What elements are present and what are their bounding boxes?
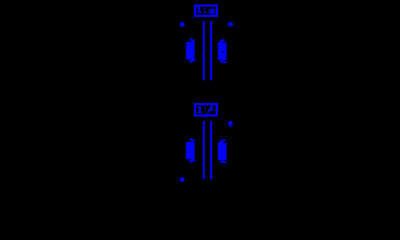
secondary winding T1 xyxy=(218,40,227,62)
phase dot T2 right top xyxy=(228,121,233,126)
primary winding T1 xyxy=(186,40,195,62)
transformer T2 xyxy=(180,104,233,182)
core line T2 left xyxy=(203,121,205,179)
label glyph ":" of 1:a xyxy=(204,8,206,13)
phase dot T2 left bottom xyxy=(180,177,185,182)
phase dot T1 left xyxy=(180,22,185,27)
ratio label box 2 xyxy=(195,104,217,115)
secondary winding T2 xyxy=(218,140,227,162)
transformer T1 xyxy=(180,6,233,81)
core line T1 right xyxy=(210,21,212,80)
core line T2 right xyxy=(210,121,212,179)
label glyph "1" of 1:a xyxy=(197,7,201,13)
ratio label box 1 xyxy=(195,6,217,16)
label glyph "1" of 1:b xyxy=(198,106,202,113)
label glyph ":" of 1:b xyxy=(204,108,205,113)
stub under phase dot T2 right xyxy=(230,126,232,127)
gap in secondary winding T1 xyxy=(222,51,224,53)
phase dot T1 right xyxy=(228,22,233,27)
core line T1 left xyxy=(203,21,205,80)
primary winding T2 xyxy=(186,140,195,162)
label glyph "a" of 1:a xyxy=(209,9,215,14)
label glyph "b" (beta) of 1:b xyxy=(207,106,214,115)
